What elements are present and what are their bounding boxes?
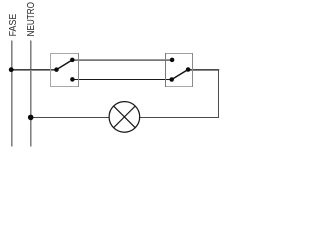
- svg-text:FASE: FASE: [8, 14, 19, 37]
- svg-text:NEUTRO: NEUTRO: [26, 2, 37, 36]
